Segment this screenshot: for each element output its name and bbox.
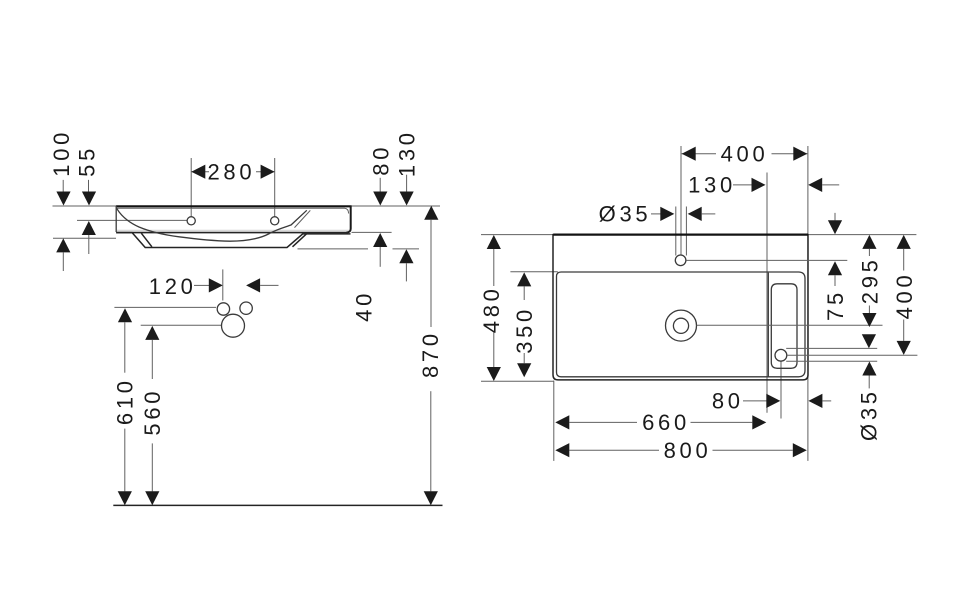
arrow 80 right at overflow line (766, 394, 780, 408)
dim 100 stem below (62, 252, 64, 271)
basin top view: rim top edge thick overlay (553, 234, 808, 236)
dim 120: line from label to arrow (194, 284, 210, 286)
svg-text:80: 80 (368, 144, 393, 176)
LEFT SIDE VIEW GROUP (49, 129, 443, 506)
arrow 130 down at rim (400, 192, 414, 206)
svg-text:130: 130 (688, 172, 736, 197)
arrow 130 right at shelf edge (752, 178, 766, 192)
basin side profile: deck underside gray band (117, 230, 349, 232)
dim 610 upper stem (124, 322, 126, 372)
arrow 560 down at floor (145, 491, 159, 505)
dim 75 stem below (834, 275, 836, 286)
svg-text:280: 280 (207, 160, 255, 185)
basin side profile: back bowl parallel diagonal (295, 210, 311, 227)
basin side profile: deck bottom dark line (116, 232, 348, 234)
wire: rim line left extension (481, 234, 553, 236)
faucet hole right small circle (240, 302, 252, 314)
arrow 400 right down at overflow center leader (897, 341, 911, 355)
arrow 480 down at bottom (487, 367, 501, 381)
wire: overflow center extension vertical (80 ref) (780, 361, 782, 418)
arrow 55 up at faucet line (82, 221, 96, 235)
svg-text:295: 295 (857, 256, 882, 304)
arrow 100 down at rim (56, 192, 70, 206)
dim 350 lower stem (523, 353, 525, 363)
wire: hole diameter right vertical (685, 207, 687, 256)
dim 480 column: arrow up at rim (487, 235, 501, 249)
wire: big hole level line (141, 324, 221, 326)
basin side profile: right edge thick (347, 206, 351, 233)
arrow 75 down at rim (828, 220, 842, 234)
wire: small holes level line (114, 306, 216, 308)
dim 870 column: arrow up at rim (424, 206, 438, 220)
wire: overflow center leader (787, 354, 918, 356)
dim 280 line segments (191, 171, 209, 173)
svg-text:130: 130 (394, 129, 419, 177)
wire: deck bottom right extension (80 dim) (352, 231, 392, 233)
drain outer circle (666, 310, 697, 341)
dim 870 lower stem (430, 391, 432, 491)
dim 480 lower stem (493, 333, 495, 368)
dim 400 right upper stem (903, 249, 905, 271)
wire: 280 dim right extension line (274, 158, 276, 217)
wire: bowl bottom right extension (130/40 dim) (298, 248, 369, 250)
dim 80 bottom: line from label to arrow (743, 400, 767, 402)
dim 610 column: arrow up at holes line (118, 308, 132, 322)
wire: rim reference line left extension (53, 205, 117, 207)
basin side profile: rim top thick line (116, 205, 352, 207)
wire: right edge extension vertical (400/130/800 ref) (807, 146, 809, 461)
arrow 870 down at floor (424, 491, 438, 505)
dim 100 column: stem above (62, 180, 64, 192)
wire: left edge extension vertical (660/800 ref) (553, 381, 555, 461)
arrow 100 up at apron line (56, 238, 70, 252)
arrow hole diameter left opposing (688, 207, 702, 221)
wire: shelf edge extension vertical (130/660/80 ref) (766, 173, 768, 413)
wire: overflow bottom tangent leader (786, 360, 877, 362)
faucet hole left small circle (217, 303, 229, 315)
wire: floor line (113, 504, 442, 506)
dim 560 lower stem (151, 443, 153, 491)
svg-text:100: 100 (49, 129, 74, 177)
svg-text:560: 560 (140, 388, 165, 436)
dim 400 right lower stem (903, 320, 905, 341)
arrow 80 left opposing at right edge (808, 394, 822, 408)
dim 80 right stem (822, 400, 831, 402)
faucet hole left circle (side view) (187, 217, 195, 225)
wire: bottom left extension line (481, 380, 554, 382)
faucet hole right circle (side view) (271, 217, 279, 225)
dim 560 column: arrow up at big hole line (145, 326, 159, 340)
basin underside outline with feet (116, 233, 350, 248)
svg-text:480: 480 (479, 285, 504, 333)
wire: drain leader line right (697, 324, 883, 326)
arrow hole diameter right (660, 207, 674, 221)
wire: overflow top tangent leader (786, 347, 877, 349)
dim 660 line segments (569, 421, 637, 423)
basin underside right inner diagonal (293, 234, 307, 247)
arrow 280 right (261, 165, 275, 179)
faucet hole big circle (222, 314, 245, 337)
svg-text:80: 80 (712, 388, 744, 413)
svg-text:870: 870 (418, 330, 443, 378)
wire: faucet hole center vertical (400 ref) (680, 146, 682, 255)
wire: hole diameter left vertical (675, 207, 677, 256)
svg-text:610: 610 (113, 377, 138, 425)
dim 480 upper stem (493, 249, 495, 286)
dim 800 line segments (569, 449, 659, 451)
svg-text:800: 800 (664, 438, 712, 463)
dim 870 upper stem (430, 220, 432, 327)
drain inner circle (673, 318, 688, 333)
faucet hole circle (top view) (675, 255, 686, 266)
wire: faucet-hole level reference line (77, 219, 187, 221)
arrow 80 up at deck bottom (373, 233, 387, 247)
svg-text:55: 55 (75, 145, 100, 177)
dim 400 right column: arrow up at rim (897, 235, 911, 249)
dim hole diameter right stem (702, 213, 716, 215)
arrow 75 up at faucet leader (828, 261, 842, 275)
dim 130 top: line from label to arrow (733, 184, 753, 186)
basin side profile: left edge (115, 206, 117, 232)
arrow 350 down at inner bottom (517, 363, 531, 377)
svg-text:660: 660 (642, 410, 690, 435)
wire: 280 dim left extension line (190, 158, 192, 217)
svg-text:40: 40 (352, 290, 377, 322)
arrow overflow diameter up at bottom tangent (862, 362, 876, 376)
dim 75 column: stem above (834, 213, 836, 221)
basin top view: inner bowl rounded rectangle (557, 272, 806, 377)
basin top view: outer rectangle (553, 235, 808, 380)
dim 130 stem below (405, 263, 407, 281)
dim 295 lower stem (868, 306, 870, 314)
wire: inner rim top left extension (350 ref) (510, 271, 557, 273)
svg-text:Ø35: Ø35 (599, 201, 652, 226)
basin side profile: inner bowl curve (117, 209, 307, 242)
RIGHT TOP VIEW GROUP (479, 141, 917, 463)
arrow 55 down at rim (82, 192, 96, 206)
arrow 120 opposing left (246, 278, 260, 292)
dim 55 stem below (88, 235, 90, 254)
wire: faucet hole leader line right (686, 259, 847, 261)
arrow 800 left (555, 443, 569, 457)
dim 610 lower stem (124, 429, 126, 492)
basin top view: shelf inner rounded rectangle (771, 284, 797, 369)
dim 80 column: stem above arrow (379, 178, 381, 192)
svg-text:400: 400 (721, 141, 769, 166)
arrow 120 right (209, 278, 223, 292)
svg-text:120: 120 (149, 274, 197, 299)
wire: rim line right extension (808, 234, 916, 236)
dim 295 column: arrow up at rim (862, 235, 876, 249)
svg-text:75: 75 (823, 289, 848, 321)
svg-text:400: 400 (892, 272, 917, 320)
svg-text:Ø35: Ø35 (857, 388, 882, 441)
dim 350 column: arrow up at inner rim (517, 272, 531, 286)
basin side profile: rim inner thin line (117, 208, 349, 213)
dim 130 column: stem above arrow (406, 175, 408, 192)
arrow 400 top left (682, 147, 696, 161)
dim 80 stem below (379, 247, 381, 267)
svg-text:350: 350 (512, 306, 537, 354)
arrow 295 down at drain leader (862, 313, 876, 327)
overflow hole circle (775, 349, 787, 361)
arrow overflow diameter down at top tangent (862, 334, 876, 348)
dim 55 column: stem above (88, 180, 90, 192)
arrow 660 left (555, 415, 569, 429)
arrow 660 right (752, 415, 766, 429)
arrow 280 left (191, 165, 205, 179)
arrow 130 opposing left at right edge (808, 178, 822, 192)
dim 400 top line segments (682, 153, 716, 155)
basin underside left inner diagonal (141, 233, 152, 247)
dim 295 upper stem (868, 249, 870, 256)
dim 350 upper stem (523, 286, 525, 300)
arrow 80 down at rim (373, 192, 387, 206)
wire: rim reference line right extension (352, 205, 441, 207)
dim overflow diameter stem below (868, 376, 870, 389)
basin top view: shelf edge vertical line (767, 273, 769, 378)
dim 560 upper stem (151, 340, 153, 379)
wire: apron bottom reference line (100 dim) (53, 237, 116, 239)
arrow 400 top right (793, 147, 807, 161)
dim 120 right stem (260, 284, 278, 286)
dim hole diameter: line from label to arrow (651, 213, 661, 215)
arrow 130 up at bowl bottom (399, 249, 413, 263)
arrow 610 down at floor (118, 491, 132, 505)
dim 130 right stem (822, 184, 839, 186)
wire: 120 vertical tick (222, 269, 224, 300)
arrow 800 right (793, 443, 807, 457)
